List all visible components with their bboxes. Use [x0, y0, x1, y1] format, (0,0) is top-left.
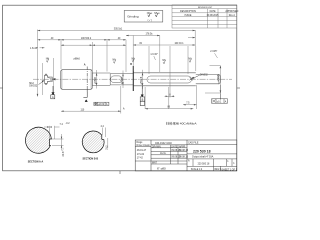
datum flag A — [51, 86, 55, 99]
section F end journal — [196, 74, 221, 83]
svg-text:B: B — [130, 63, 132, 66]
svg-text:100.5±0.2: 100.5±0.2 — [81, 38, 92, 40]
title block right column — [187, 145, 237, 171]
svg-text:⌀0.02: ⌀0.02 — [98, 103, 105, 106]
svg-text:材料采用 40CrNiMoA: 材料采用 40CrNiMoA — [166, 121, 197, 125]
svg-text:CAD FILE: CAD FILE — [188, 141, 199, 144]
ext line 133 — [132, 36, 134, 72]
T2 left dim — [38, 39, 127, 41]
keyway slot on section E — [147, 76, 192, 83]
svg-text:⌀86k6: ⌀86k6 — [73, 57, 80, 60]
svg-text:DESCRIPTION: DESCRIPTION — [180, 11, 196, 13]
svg-text:48-01-47: 48-01-47 — [137, 150, 147, 152]
svg-text:09.08.15: 09.08.15 — [179, 157, 189, 159]
svg-text:APPROVED: APPROVED — [225, 10, 238, 13]
svg-text:171-02: 171-02 — [137, 154, 145, 156]
svg-text:18.2: 18.2 — [106, 145, 108, 150]
svg-text:Drive Crispin: Drive Crispin — [137, 144, 151, 147]
section D — [110, 73, 133, 75]
section E — [133, 72, 196, 74]
centering tick left — [0, 87, 3, 89]
T2 right dim — [126, 35, 160, 37]
roughness marks above shaft — [46, 58, 191, 64]
dia dim arrows — [96, 73, 144, 86]
tolerance frame 2 — [212, 99, 228, 103]
ext line slot start — [148, 46, 150, 74]
ext line 170 — [169, 46, 171, 98]
svg-text:20.8⁻⁰⋅¹: 20.8⁻⁰⋅¹ — [61, 148, 65, 157]
svg-text:1.6 30°: 1.6 30° — [150, 54, 157, 56]
keyway slot on section D — [111, 76, 123, 83]
section C — [92, 72, 110, 74]
svg-text:SECTION B-B: SECTION B-B — [83, 158, 99, 161]
dim 110 — [61, 110, 121, 112]
B-B keyway dims — [102, 128, 108, 149]
title block middle column — [151, 145, 187, 164]
svg-text:1.6×45°: 1.6×45° — [30, 47, 38, 50]
datum flag B — [140, 86, 144, 106]
svg-text:SECTION A-A: SECTION A-A — [28, 160, 44, 163]
svg-text:09.08.2015: 09.08.2015 — [207, 15, 219, 17]
svg-text:DIN332: DIN332 — [200, 75, 209, 77]
svg-text:040-1942 1040: 040-1942 1040 — [155, 142, 172, 145]
svg-text:Rev A: Rev A — [229, 14, 236, 17]
shaft outline — [45, 66, 221, 91]
svg-text:6" ⌀80: 6" ⌀80 — [157, 166, 166, 170]
svg-text:MAT: MAT — [152, 161, 157, 164]
svg-text:Grinding: Grinding — [127, 15, 139, 19]
svg-text:REVISION LIST: REVISION LIST — [198, 7, 213, 9]
stub centerline arrow — [53, 78, 56, 80]
T3 right dim — [133, 44, 195, 46]
section cut plane A — [86, 67, 88, 93]
T1 overall dim — [38, 30, 196, 32]
roughness symbol N6 in note — [148, 13, 160, 17]
svg-text:DATE: DATE — [171, 145, 177, 148]
svg-text:Output shaft 4" DIA: Output shaft 4" DIA — [192, 156, 214, 159]
page border frame — [3, 5, 237, 171]
ext line far left — [37, 30, 39, 97]
svg-text:Avl A.: Avl A. — [160, 152, 167, 155]
dia dim section E — [142, 70, 144, 89]
svg-text:09.08.15: 09.08.15 — [179, 150, 189, 152]
svg-text:220 500 18: 220 500 18 — [198, 164, 210, 166]
svg-text:⌀0.1: ⌀0.1 — [217, 100, 222, 103]
centering tick right — [237, 87, 240, 89]
ext line stub left — [42, 63, 44, 95]
ext line 159.8 — [159, 36, 161, 73]
centerline — [33, 78, 232, 80]
svg-text:100 ±0.1: 100 ±0.1 — [174, 43, 184, 45]
svg-text:SHEET 1 OF 1: SHEET 1 OF 1 — [222, 169, 238, 171]
svg-text:DIN332: DIN332 — [29, 85, 38, 87]
line toward 37.6 arrow — [188, 37, 195, 39]
svg-text:( √ ): ( √ ) — [148, 19, 152, 22]
dim 86 — [145, 108, 193, 110]
svg-text:178.5±: 178.5± — [145, 33, 153, 35]
ext line t2 right — [125, 40, 127, 72]
svg-text:A: A — [84, 64, 86, 67]
tolerance frame 1 — [94, 102, 109, 105]
ext line t2 mid — [106, 40, 108, 72]
dia dim section C — [96, 70, 98, 89]
dia dim section D — [122, 71, 124, 89]
dim arrows top tiers — [38, 30, 197, 112]
svg-text:220 530 18: 220 530 18 — [193, 149, 211, 153]
svg-text:17-42: 17-42 — [137, 158, 144, 160]
left stub leader text — [39, 80, 45, 84]
ext line 188 — [187, 46, 189, 74]
svg-text:ISSUE: ISSUE — [185, 15, 192, 17]
svg-text:305.5±1: 305.5±1 — [114, 29, 123, 31]
ext line right end — [194, 30, 196, 46]
T3 left dim — [61, 44, 126, 46]
svg-text:DRAWN: DRAWN — [152, 145, 161, 148]
dim 8 keyway — [165, 95, 175, 97]
dim 7.5 — [183, 104, 197, 106]
ext line big sec left — [60, 40, 62, 69]
svg-text:APPR: APPR — [179, 145, 186, 148]
svg-text:2.X45°: 2.X45° — [210, 51, 217, 53]
big section — [61, 70, 93, 90]
svg-text:SCALE 1:2: SCALE 1:2 — [191, 168, 203, 171]
A-A keyway dims — [44, 126, 64, 151]
svg-text:⌀55k6: ⌀55k6 — [94, 76, 97, 84]
frame 2 leader — [219, 94, 221, 99]
center hole detail plug — [45, 75, 53, 83]
end face dim lines — [205, 66, 221, 93]
title block left column — [135, 146, 151, 161]
leader arrow at slot end to DIN332 — [190, 75, 200, 80]
ext line 195.8 — [195, 46, 197, 71]
ext line stub right — [53, 58, 55, 95]
svg-text:⌀30k6: ⌀30k6 — [217, 74, 220, 82]
datum leader at big section — [83, 90, 87, 102]
centering tick bottom — [119, 171, 121, 174]
svg-text:-0.2: -0.2 — [66, 123, 71, 125]
svg-text:DATE: DATE — [210, 10, 216, 13]
